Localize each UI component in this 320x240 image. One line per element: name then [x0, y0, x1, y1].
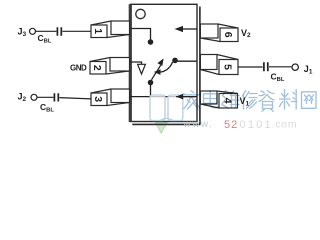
svg-text:52: 52	[224, 119, 238, 131]
svg-text:5: 5	[222, 64, 234, 70]
svg-text:GND: GND	[70, 63, 87, 72]
svg-text:www.: www.	[183, 119, 214, 130]
svg-text:3: 3	[92, 96, 104, 102]
svg-text:1: 1	[92, 28, 104, 34]
svg-text:6: 6	[222, 32, 234, 38]
svg-text:0101: 0101	[240, 119, 273, 131]
svg-text:2: 2	[91, 65, 103, 71]
svg-text:.com: .com	[272, 119, 298, 131]
